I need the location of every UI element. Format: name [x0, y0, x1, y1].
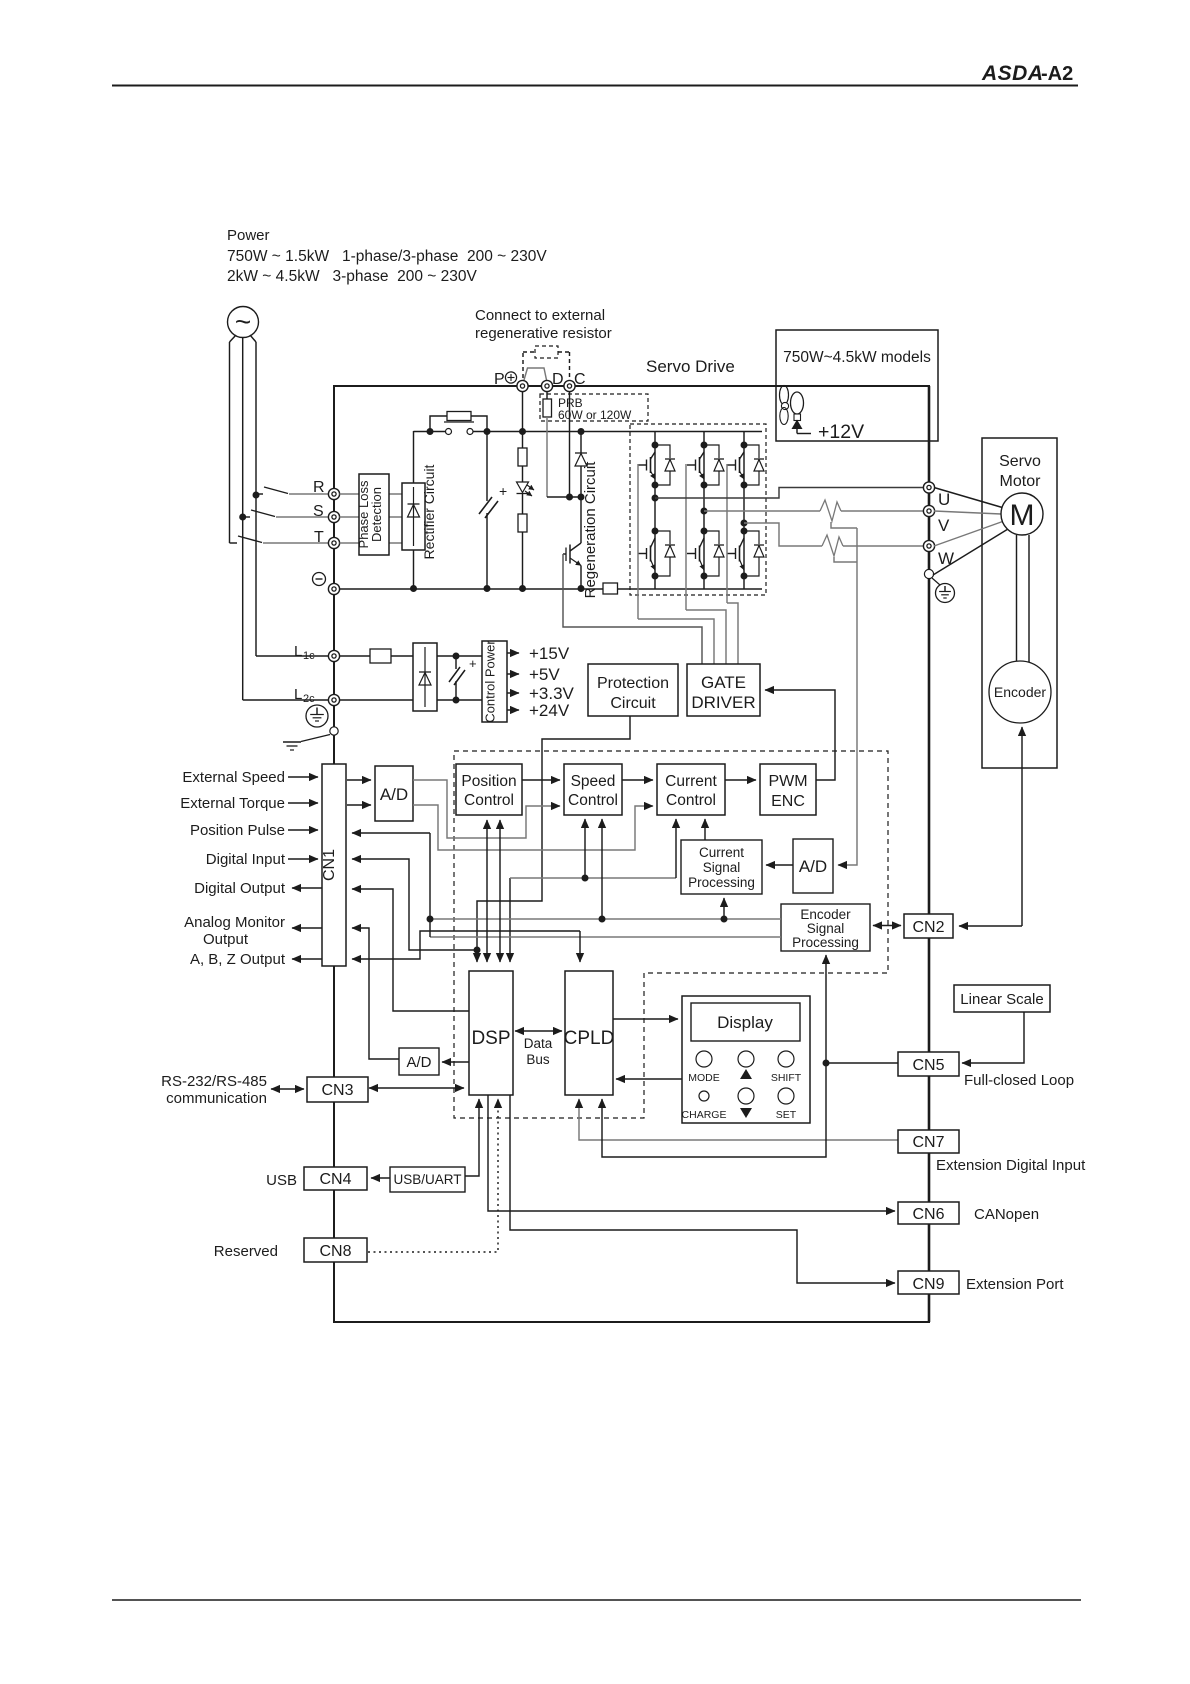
svg-text:~: ~: [235, 306, 251, 337]
svg-text:Servo Drive: Servo Drive: [646, 357, 735, 376]
svg-text:R: R: [313, 479, 325, 496]
svg-text:A/D: A/D: [380, 785, 408, 804]
svg-text:L: L: [294, 686, 302, 703]
svg-text:S: S: [313, 503, 324, 520]
svg-text:T: T: [314, 529, 324, 546]
svg-text:CN5: CN5: [912, 1057, 944, 1074]
svg-text:W: W: [938, 549, 954, 568]
svg-text:ENC: ENC: [771, 793, 805, 810]
svg-text:Extension Digital Input: Extension Digital Input: [936, 1157, 1086, 1174]
svg-text:Speed: Speed: [571, 773, 616, 790]
svg-text:U: U: [938, 490, 950, 509]
svg-text:RS-232/RS-485: RS-232/RS-485: [161, 1073, 267, 1090]
svg-text:CN4: CN4: [319, 1171, 351, 1188]
svg-text:Encoder: Encoder: [994, 684, 1046, 700]
svg-text:Connect to external: Connect to external: [475, 307, 605, 324]
svg-text:CN7: CN7: [912, 1134, 944, 1151]
svg-text:+24V: +24V: [529, 701, 570, 720]
svg-text:Current: Current: [665, 773, 717, 790]
svg-text:P: P: [494, 371, 505, 388]
svg-text:GATE: GATE: [701, 673, 746, 692]
svg-text:Motor: Motor: [1000, 473, 1042, 490]
svg-text:CN1: CN1: [321, 849, 338, 881]
svg-text:CN2: CN2: [912, 919, 944, 936]
svg-text:CN3: CN3: [321, 1082, 353, 1099]
svg-text:Signal: Signal: [807, 921, 845, 936]
svg-text:CANopen: CANopen: [974, 1206, 1039, 1223]
svg-text:Full-closed Loop: Full-closed Loop: [964, 1072, 1074, 1089]
svg-text:Power: Power: [227, 227, 270, 244]
svg-text:MODE: MODE: [688, 1072, 720, 1084]
svg-text:CPLD: CPLD: [564, 1028, 615, 1049]
svg-text:750W ~ 1.5kW 1-phase/3-phase: 750W ~ 1.5kW 1-phase/3-phase 200 ~ 230V: [227, 248, 547, 265]
svg-text:A, B, Z Output: A, B, Z Output: [190, 951, 286, 968]
svg-text:External Torque: External Torque: [180, 795, 285, 812]
svg-text:Control Power: Control Power: [483, 640, 498, 723]
svg-text:+: +: [469, 656, 477, 671]
svg-text:A/D: A/D: [799, 857, 827, 876]
svg-text:Analog Monitor: Analog Monitor: [184, 914, 285, 931]
svg-text:Encoder: Encoder: [800, 907, 851, 922]
svg-text:Digital Output: Digital Output: [194, 880, 286, 897]
svg-text:Rectifier Circuit: Rectifier Circuit: [421, 464, 437, 559]
svg-text:+15V: +15V: [529, 644, 570, 663]
svg-text:Control: Control: [568, 792, 618, 809]
svg-text:A/D: A/D: [406, 1054, 431, 1071]
svg-text:CN9: CN9: [912, 1276, 944, 1293]
svg-text:Control: Control: [666, 792, 716, 809]
svg-text:CN8: CN8: [319, 1243, 351, 1260]
svg-text:USB/UART: USB/UART: [393, 1172, 461, 1187]
svg-text:Regeneration Circuit: Regeneration Circuit: [582, 461, 599, 599]
svg-text:ASDA: ASDA: [981, 62, 1044, 85]
svg-text:+12V: +12V: [818, 421, 864, 443]
svg-text:V: V: [938, 516, 950, 535]
svg-text:Signal: Signal: [703, 860, 741, 875]
svg-text:Control: Control: [464, 792, 514, 809]
svg-text:750W~4.5kW models: 750W~4.5kW models: [783, 349, 931, 366]
svg-text:2c: 2c: [303, 693, 315, 705]
svg-text:-A2: -A2: [1041, 63, 1073, 85]
svg-text:Digital Input: Digital Input: [206, 851, 286, 868]
svg-text:Position Pulse: Position Pulse: [190, 822, 285, 839]
svg-text:+: +: [499, 483, 507, 499]
svg-text:SHIFT: SHIFT: [771, 1072, 802, 1084]
svg-text:DSP: DSP: [471, 1028, 510, 1049]
svg-text:communication: communication: [166, 1090, 267, 1107]
svg-text:Position: Position: [461, 773, 516, 790]
svg-text:L: L: [294, 643, 302, 660]
svg-text:regenerative resistor: regenerative resistor: [475, 325, 612, 342]
svg-text:Reserved: Reserved: [214, 1243, 278, 1260]
svg-text:Data: Data: [524, 1036, 553, 1051]
svg-text:Servo: Servo: [999, 453, 1041, 470]
svg-text:Display: Display: [717, 1013, 773, 1032]
svg-text:+5V: +5V: [529, 665, 560, 684]
svg-text:Processing: Processing: [688, 875, 755, 890]
svg-text:Processing: Processing: [792, 935, 859, 950]
svg-text:CHARGE: CHARGE: [682, 1109, 727, 1121]
svg-text:Circuit: Circuit: [610, 695, 656, 712]
svg-text:1c: 1c: [303, 650, 315, 662]
svg-text:SET: SET: [776, 1109, 797, 1121]
svg-text:D: D: [552, 371, 564, 388]
svg-text:Output: Output: [203, 931, 249, 948]
svg-text:Bus: Bus: [526, 1052, 550, 1067]
svg-text:Protection: Protection: [597, 675, 669, 692]
svg-text:CN6: CN6: [912, 1206, 944, 1223]
svg-text:Linear Scale: Linear Scale: [960, 991, 1043, 1008]
svg-text:External Speed: External Speed: [182, 769, 285, 786]
svg-text:DRIVER: DRIVER: [691, 693, 755, 712]
svg-text:USB: USB: [266, 1172, 297, 1189]
svg-text:Extension Port: Extension Port: [966, 1276, 1064, 1293]
svg-text:Current: Current: [699, 845, 744, 860]
svg-text:Detection: Detection: [369, 487, 384, 542]
svg-text:2kW ~ 4.5kW 3-phase 200 ~ 2: 2kW ~ 4.5kW 3-phase 200 ~ 230V: [227, 268, 478, 285]
svg-text:PWM: PWM: [768, 773, 807, 790]
svg-text:M: M: [1010, 499, 1035, 532]
